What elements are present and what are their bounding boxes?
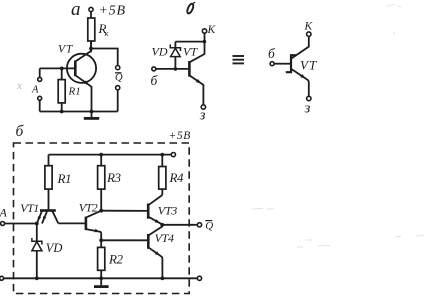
resistor R4: [159, 155, 184, 195]
node rail/R3 (dot): [99, 153, 103, 157]
wire diode cathode to collector: [175, 41, 204, 43]
wire input A bottom to rail: [39, 100, 41, 111]
wire output bottom to ground rail: [117, 90, 119, 112]
diode VD (circuit b, Schottky): [32, 223, 63, 278]
VT3 emitter lead: [148, 217, 162, 225]
svg-text:VT: VT: [183, 44, 198, 58]
input terminal A top: [38, 77, 42, 81]
terminal b (equivalent transistor): [268, 46, 276, 66]
input terminal A bottom: [38, 96, 42, 100]
svg-text:VT3: VT3: [158, 203, 177, 217]
svg-text:VT1: VT1: [20, 201, 39, 215]
ground rail (circuit a): [40, 110, 118, 112]
emitter arrow: [84, 80, 89, 85]
svg-text:R3: R3: [106, 170, 121, 185]
transistor VT1 base bar (horizontal): [40, 209, 56, 212]
output terminal Q-bar (circuit b): [197, 223, 201, 227]
transistor VT (circuit v) base bar: [188, 61, 191, 77]
svg-text:VT4: VT4: [155, 231, 174, 245]
wire input A to emitters: [5, 222, 37, 224]
transistor VT circle (circuit a): [67, 54, 96, 83]
dashed enclosure box: [13, 143, 189, 294]
label Q-bar (circuit a): [115, 72, 123, 83]
+5V terminal (circuit a): [89, 3, 126, 18]
svg-text:Q: Q: [205, 220, 213, 232]
resistor R3: [98, 155, 122, 211]
input terminal A (circuit b): [0, 205, 7, 225]
top supply rail: [48, 154, 171, 156]
node VT2 collector/R3 (dot): [99, 209, 103, 213]
svg-text:R4: R4: [168, 170, 183, 185]
node VT4 emitter/rail (dot): [160, 276, 164, 280]
resistor R1 (circuit a): [58, 80, 81, 103]
svg-text:а: а: [71, 0, 81, 20]
svg-text:К: К: [304, 21, 314, 33]
svg-text:+5В: +5В: [99, 3, 126, 18]
wire +5V to Rk: [90, 12, 92, 18]
node R2/rail (dot): [99, 276, 103, 280]
wire node to R1: [61, 68, 63, 79]
node input/VD (dot): [35, 222, 39, 226]
resistor Rk: [88, 18, 110, 41]
svg-text:R1: R1: [56, 171, 70, 186]
scan noise specks (decorative): [252, 5, 424, 248]
VT1 emitter 1: [37, 211, 42, 223]
wire base (equivalent): [274, 63, 290, 65]
VT4 emitter lead: [148, 247, 162, 278]
svg-text:б: б: [268, 46, 276, 61]
resistor R2: [98, 247, 124, 278]
svg-text:Q: Q: [115, 72, 123, 83]
svg-text:VD: VD: [152, 44, 168, 58]
terminal K (circuit v): [202, 24, 216, 36]
svg-text:VT2: VT2: [79, 200, 98, 214]
wire base: [156, 68, 188, 70]
svg-text:з: з: [304, 100, 311, 116]
VT4 collector lead: [148, 225, 162, 236]
emitter lead (equivalent): [291, 69, 309, 96]
VT2 emitter lead: [86, 229, 101, 247]
node VD/rail (dot): [35, 276, 39, 280]
node R1/rail (dot): [60, 110, 64, 114]
svg-text:А: А: [0, 205, 7, 219]
collector lead (equivalent): [291, 36, 309, 59]
ground symbol (circuit b): [94, 278, 109, 286]
ground symbol (circuit a): [84, 111, 99, 118]
output terminal Q-bar top: [116, 65, 120, 69]
node cathode/collector (dot): [203, 40, 207, 44]
emitter arrow (equivalent): [300, 74, 305, 78]
svg-text:з: з: [199, 107, 206, 123]
svg-text:К: К: [207, 24, 217, 36]
Schottky base bar (equivalent transistor VT): [286, 55, 296, 72]
node emitter/rail (dot): [90, 110, 94, 114]
svg-text:А: А: [31, 84, 39, 95]
transistor VT collector lead: [75, 41, 91, 62]
node rail/R4 (dot): [160, 153, 164, 157]
VT1 collector lead: [52, 211, 58, 223]
svg-text:VT: VT: [58, 43, 74, 55]
label Q-bar (circuit b): [205, 220, 213, 232]
transistor VT base bar: [74, 61, 77, 77]
node base/diode (dot): [174, 67, 178, 71]
node VT2 emitter/VT4 base (dot): [99, 238, 103, 242]
diode VD (Schottky): [170, 42, 180, 69]
common terminal left: [0, 276, 4, 280]
node output (dot): [160, 223, 164, 227]
common terminal right: [197, 276, 201, 280]
svg-text:R1: R1: [68, 85, 81, 97]
VT3 collector lead: [148, 195, 162, 205]
svg-text:+5В: +5В: [169, 130, 191, 142]
wire VT1 collector to VT2 base: [58, 222, 85, 224]
transistor VT4 base bar: [147, 234, 150, 249]
label v (circuit v): [186, 2, 195, 14]
wire output: [162, 224, 197, 226]
bottom common rail: [3, 277, 197, 279]
terminal K (equivalent): [304, 21, 314, 37]
equivalence sign: [233, 56, 245, 63]
wire base (circuit a): [40, 67, 74, 69]
terminal Z (equivalent): [304, 96, 312, 116]
svg-text:б: б: [151, 73, 159, 88]
svg-text:VD: VD: [46, 241, 63, 255]
wire Rk to collector: [90, 41, 92, 53]
transistor VT2 base bar: [85, 217, 88, 231]
transistor VT3 base bar: [147, 203, 150, 218]
terminal b (base input): [152, 67, 156, 71]
output terminal Q-bar bottom: [116, 86, 120, 90]
wire VT2 collector to VT3 base: [101, 210, 147, 212]
+5V terminal (circuit b): [171, 152, 175, 156]
svg-text:VT: VT: [300, 58, 317, 73]
wire collector node to output branch: [91, 48, 118, 65]
emitter arrow (circuit v): [196, 79, 201, 84]
svg-text:б: б: [16, 123, 25, 140]
svg-text:х: х: [16, 80, 22, 92]
VT2 collector lead: [86, 211, 101, 218]
transistor VT emitter lead: [75, 75, 91, 111]
node base/R1 (dot): [60, 66, 64, 70]
emitter lead (circuit v): [189, 75, 203, 104]
wire input A top: [39, 68, 41, 77]
collector lead (circuit v): [189, 33, 204, 62]
node collector (dot): [89, 47, 93, 51]
terminal Z (circuit v): [199, 105, 206, 124]
VT1 emitter 2: [42, 211, 47, 223]
wire VT2 emitter to VT4 base: [101, 239, 147, 241]
wire R1 to rail: [61, 103, 63, 112]
svg-text:R2: R2: [108, 251, 123, 266]
resistor R1 (circuit b): [45, 155, 71, 210]
